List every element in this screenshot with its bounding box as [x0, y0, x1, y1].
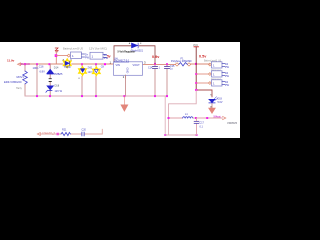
svg-text:GND: GND	[125, 68, 129, 74]
node at x155	[154, 63, 156, 65]
svg-text:PMBZ5: PMBZ5	[54, 73, 63, 76]
node at x196	[195, 63, 197, 65]
wire GND stub U4	[125, 75, 127, 96]
wire LC block left verticals	[165, 96, 168, 135]
svg-text:0.9v: 0.9v	[152, 55, 160, 59]
node at x25	[24, 63, 26, 65]
off-page connector right	[223, 116, 226, 119]
capacitor C17	[194, 118, 199, 135]
svg-text:R21: R21	[62, 128, 67, 131]
fuse F1 diamonds	[175, 63, 191, 66]
zener D18 cathode marks	[49, 79, 51, 82]
svg-text:5Vout: 5Vout	[214, 114, 221, 118]
wire main input rail y64	[20, 63, 114, 65]
svg-text:0.5v: 0.5v	[199, 55, 207, 59]
wire LED3 branch x96	[95, 64, 97, 96]
node at x105	[104, 63, 106, 65]
svg-text:C17: C17	[200, 121, 205, 124]
capacitor C21 series	[82, 132, 84, 136]
node at x82	[81, 63, 83, 65]
svg-text:12V W: 12V W	[55, 90, 63, 93]
svg-text:LM2940CT-5.0: LM2940CT-5.0	[114, 59, 130, 62]
wire to box3	[196, 82, 209, 84]
wire LC bottom rail	[165, 134, 196, 136]
pin diamond box3	[208, 82, 211, 85]
off-page connector bottom left	[37, 133, 40, 136]
svg-text:C20: C20	[82, 128, 87, 131]
svg-text:D18: D18	[55, 85, 60, 88]
wire varistor branch x25	[24, 64, 26, 96]
LED1 yellow highlight	[63, 59, 71, 69]
svg-text:5.6V: 5.6V	[218, 101, 223, 104]
resistor R2	[61, 132, 71, 135]
svg-text:BatteryLevel3 U5: BatteryLevel3 U5	[63, 47, 84, 50]
LED2 yellow highlight	[78, 66, 86, 76]
svg-text:MOV1: MOV1	[17, 75, 25, 79]
wire VOUT rail y64	[143, 63, 210, 66]
capacitor C15 at x167	[165, 64, 170, 96]
wire zener branch x50	[49, 64, 51, 96]
inductor L1	[183, 117, 193, 118]
pin diamond box2	[208, 73, 211, 76]
wire stub to ground	[211, 104, 213, 108]
svg-text:5 Volt Regulator: 5 Volt Regulator	[118, 50, 136, 53]
junction dots on main rail	[24, 63, 197, 65]
pin diamond box A input	[67, 54, 70, 57]
component box1	[212, 62, 223, 68]
svg-text:C16: C16	[39, 64, 44, 68]
component box A BatteryLevel	[71, 52, 82, 59]
node dot bottom	[57, 133, 59, 135]
wire to box A	[56, 55, 68, 57]
ground rail y96	[25, 95, 167, 97]
svg-text:Polyfuse RXE090: Polyfuse RXE090	[171, 59, 192, 63]
wire VCC stem x196	[195, 47, 197, 90]
svg-text:5v: 5v	[107, 54, 111, 58]
node at x37	[36, 63, 38, 65]
node dots LC	[164, 117, 208, 136]
svg-text:D14: D14	[54, 66, 59, 69]
ground arrow right	[209, 107, 216, 114]
wire C16 branch x37	[36, 64, 38, 96]
zener D18	[46, 86, 54, 92]
ground arrow center	[121, 96, 128, 111]
svg-text:TMBD: TMBD	[64, 66, 71, 69]
svg-text:C14: C14	[148, 67, 153, 70]
node at x167	[166, 63, 168, 65]
component box B MIC module	[90, 52, 103, 59]
LED3 diode outline	[94, 69, 98, 72]
wire power stem x56	[55, 51, 57, 64]
wire to box2	[196, 73, 209, 75]
power symbol 12V left	[55, 48, 58, 52]
svg-text:100n: 100n	[33, 66, 39, 70]
wire LC feed from VCC stem	[169, 90, 197, 118]
LED3 yellow highlight	[92, 67, 100, 77]
component box3	[212, 80, 223, 86]
svg-text:12V (for MIC): 12V (for MIC)	[89, 47, 107, 50]
wire corner to zener D19	[196, 90, 212, 97]
node dots on VCC stem	[195, 73, 197, 91]
pins box B right	[103, 55, 107, 58]
node CLMAX off-page connector	[18, 63, 21, 66]
svg-text:11.9v: 11.9v	[7, 59, 15, 63]
svg-text:VDD5V6: VDD5V6	[227, 121, 238, 125]
svg-text:VIN: VIN	[116, 63, 120, 67]
pin diamond box1	[208, 63, 211, 66]
component box2	[212, 71, 223, 77]
svg-text:VOUT: VOUT	[133, 63, 141, 67]
wire bottom net	[40, 129, 102, 134]
node dots ground rail	[36, 95, 168, 97]
wire bypass diode net	[114, 46, 155, 64]
op-amp U4 regulator box	[114, 62, 143, 76]
node power junction	[55, 54, 58, 57]
LED2 diode	[81, 69, 85, 73]
diode D bypass	[132, 43, 139, 48]
node at x49	[49, 63, 51, 65]
capacitor C14 at x155	[153, 64, 158, 96]
svg-text:Harry: Harry	[16, 87, 23, 90]
svg-text:ERZ-V05D220: ERZ-V05D220	[4, 80, 22, 84]
fuse F1 zigzag	[179, 63, 188, 66]
wire LED2 branch x82	[81, 64, 83, 96]
node corner dot	[195, 89, 197, 91]
pins box A right	[82, 54, 85, 57]
varistor MOV1 zigzag	[23, 71, 28, 84]
svg-text:6.8V: 6.8V	[40, 70, 46, 74]
LED1 diode	[65, 61, 69, 65]
node at x96	[95, 63, 97, 65]
zener D14	[47, 69, 53, 74]
zener D19	[209, 99, 215, 103]
wire LC mid horizontal	[169, 117, 223, 119]
